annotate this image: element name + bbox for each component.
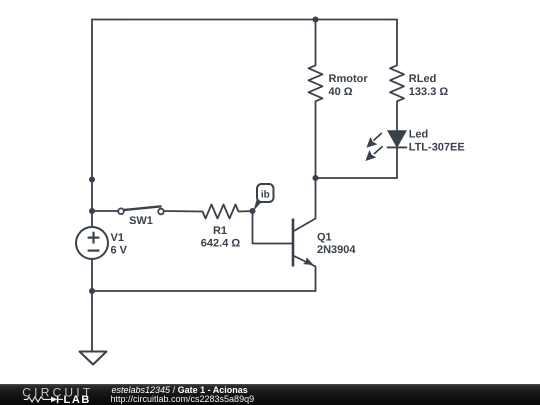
wire node ib down and right to base [253,211,293,244]
switch SW1 [118,206,164,214]
svg-text:2N3904: 2N3904 [317,244,356,256]
svg-text:133.3 Ω: 133.3 Ω [409,86,449,98]
transistor Q1 [293,219,316,267]
LED light arrow 1 [367,133,382,147]
LED labels [409,128,465,153]
svg-text:RLed: RLed [409,73,437,85]
svg-text:V1: V1 [111,232,124,244]
svg-text:LAB: LAB [64,394,91,405]
resistor R1 labels [201,225,241,250]
svg-text:6 V: 6 V [111,245,128,257]
wire RLed top lead [396,20,398,66]
footer black bar [0,384,540,405]
ground [80,352,107,365]
svg-text:Q1: Q1 [317,232,332,244]
junction dot node ib [249,208,255,214]
wire emitter lead [315,267,317,292]
junction dot left wire at switch [89,208,95,214]
svg-text:LTL-307EE: LTL-307EE [409,142,465,154]
junction dot left wire upper [89,176,95,182]
resistor RLed labels [409,73,449,98]
svg-text:Rmotor: Rmotor [329,73,369,85]
wire collector lead [315,178,317,219]
wire top horizontal [92,19,397,21]
svg-text:R1: R1 [213,225,227,237]
CircuitLab logo [20,385,98,405]
resistor Rmotor labels [329,73,369,98]
wire switch right lead to R1 [164,210,203,213]
switch SW1 label [129,215,153,227]
wire switch left lead [92,210,118,212]
LED light arrow 2 [366,146,382,160]
transistor Q1 labels [317,232,356,257]
wire R1 right lead to node ib [239,210,253,213]
junction dot collector net [312,175,318,181]
footer text line 2 [111,394,255,404]
wire ground stem [91,291,93,352]
transistor Q1 emitter arrow [303,257,314,265]
node label ib bubble [254,184,274,211]
junction dot top net at Rmotor [312,16,318,22]
wire LED cathode to bottom net [396,148,398,179]
resistor R1 [203,205,239,219]
footer text line 1 [112,385,248,395]
wire Rmotor top lead [315,20,317,66]
voltage source V1 [76,227,108,259]
wire left vertical from top to V1 [91,20,93,228]
svg-text:40 Ω: 40 Ω [329,86,353,98]
svg-text:SW1: SW1 [129,215,153,227]
wire RLed bottom lead to LED [396,101,398,131]
junction dot left wire at bottom net [89,288,95,294]
svg-text:642.4 Ω: 642.4 Ω [201,238,241,250]
resistor RLed [390,65,404,101]
resistor Rmotor [309,65,323,101]
LED Led LTL-307EE symbol [387,131,407,147]
wire bottom horizontal (emitter net) [92,290,316,292]
wire V1 bottom to ground junction [91,259,93,291]
voltage source V1 labels [111,232,128,257]
svg-text:Led: Led [409,128,429,140]
wire Rmotor bottom lead [315,101,317,178]
wire bottom right horizontal [316,177,398,179]
svg-text:ib: ib [261,190,270,201]
